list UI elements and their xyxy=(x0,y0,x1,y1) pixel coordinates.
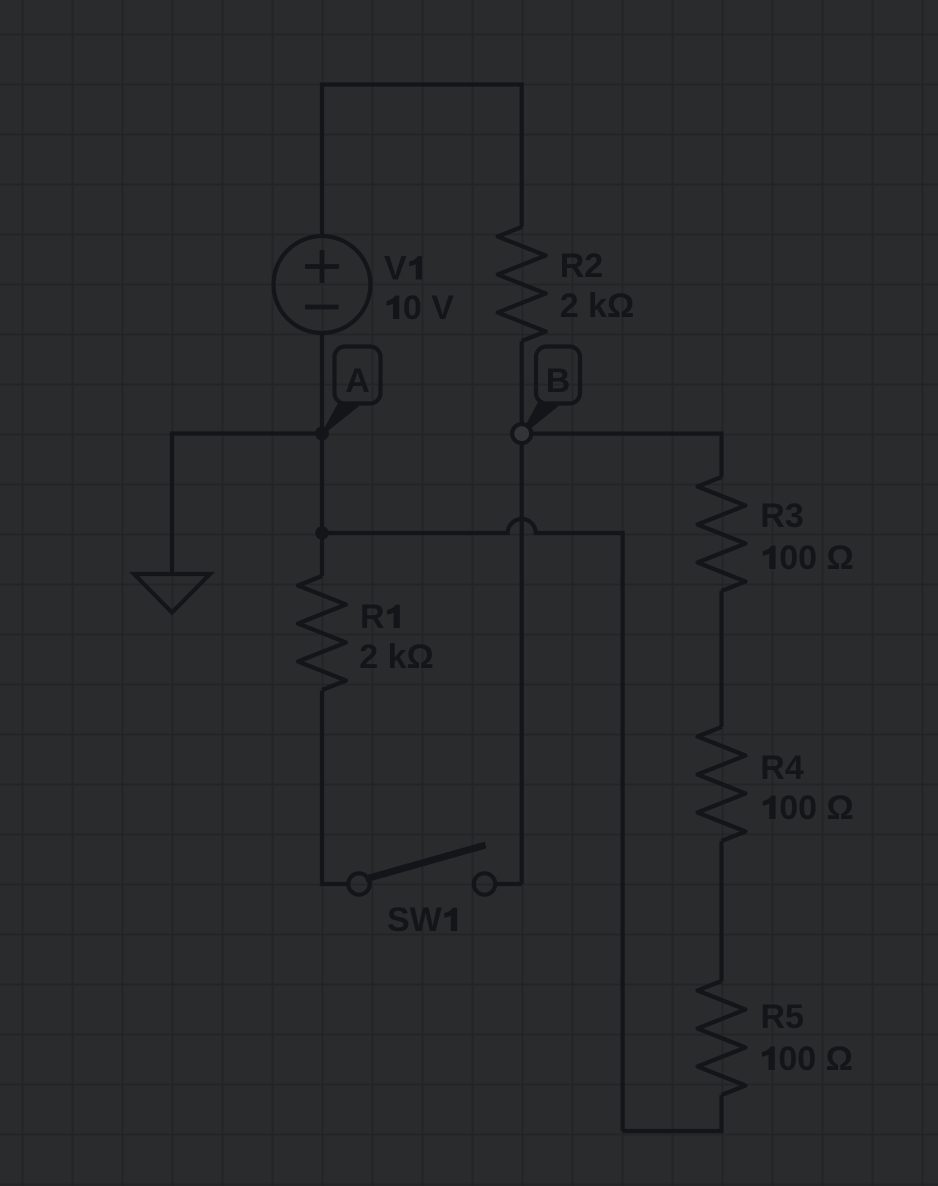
svg-text:2 kΩ: 2 kΩ xyxy=(560,287,635,325)
resistor R3 xyxy=(698,477,746,591)
svg-text:B: B xyxy=(546,362,571,400)
resistor R5 xyxy=(698,981,746,1095)
voltage source V1 xyxy=(274,236,371,333)
label 100 Ohm (R5) xyxy=(762,1047,775,1070)
svg-text:00 Ω: 00 Ω xyxy=(779,539,854,577)
node A junction dot xyxy=(315,427,329,441)
svg-text:V: V xyxy=(384,250,407,288)
wire node B to R3 top xyxy=(522,434,722,477)
wire R4 bottom to R5 top xyxy=(719,841,723,981)
label 100 Ohm (R4) xyxy=(763,796,776,819)
node A callout tail xyxy=(323,401,360,435)
wire R1 bottom to switch xyxy=(322,691,348,885)
svg-text:R4: R4 xyxy=(760,749,804,787)
resistor R4 xyxy=(698,727,746,841)
wire V1 bottom to R1 top xyxy=(320,331,324,576)
node A label box xyxy=(335,347,381,404)
label 100 Ohm (R3) xyxy=(763,546,776,569)
svg-text:SW: SW xyxy=(387,901,443,939)
svg-text:R: R xyxy=(360,598,385,636)
svg-text:0 V: 0 V xyxy=(403,289,454,327)
node B callout tail xyxy=(522,401,559,435)
node B junction dot xyxy=(512,424,531,443)
switch SW1 xyxy=(348,873,369,894)
wire junction row with hopover, loop left side xyxy=(322,519,623,1131)
wire R3 bottom to R4 top xyxy=(719,591,723,727)
svg-text:00 Ω: 00 Ω xyxy=(778,1040,853,1078)
node B label box xyxy=(536,347,580,404)
resistor R2 xyxy=(498,227,546,341)
svg-text:00 Ω: 00 Ω xyxy=(779,789,854,827)
wire bottom loop xyxy=(623,1095,722,1131)
label 10 V xyxy=(387,296,400,319)
wire top rail V1 to R2 xyxy=(322,85,522,239)
junction dot at loop row xyxy=(315,526,328,539)
svg-text:R3: R3 xyxy=(760,497,803,535)
ground xyxy=(134,574,210,613)
svg-text:R2: R2 xyxy=(560,247,603,285)
svg-text:2 kΩ: 2 kΩ xyxy=(359,638,434,676)
wire node A to ground lead xyxy=(172,434,322,575)
svg-text:R5: R5 xyxy=(761,998,804,1036)
wire R2 bottom through B down to switch xyxy=(520,341,524,884)
wire switch right to B column xyxy=(495,882,522,886)
svg-text:A: A xyxy=(345,362,370,400)
resistor R1 xyxy=(298,576,346,690)
